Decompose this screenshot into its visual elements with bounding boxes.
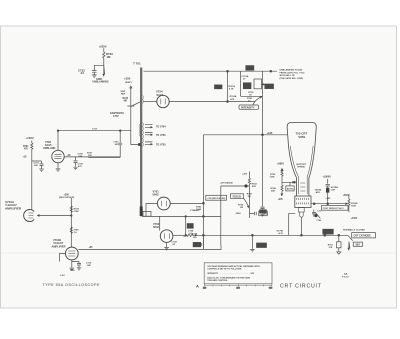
svg-text:CRT CIRCUIT: CRT CIRCUIT (280, 283, 322, 289)
svg-text:FROM CATH. FOL. V713: FROM CATH. FOL. V713 (280, 71, 306, 74)
svg-text:AA.: AA. (344, 273, 348, 276)
svg-text:+350: +350 (64, 193, 70, 196)
svg-text:200: 200 (237, 287, 240, 289)
svg-text:CAP: CAP (331, 188, 336, 191)
svg-text:(DECOUPLED): (DECOUPLED) (59, 197, 74, 199)
svg-text:UNBLANK.: UNBLANK. (43, 147, 56, 150)
svg-text:INTENSITY: INTENSITY (241, 105, 255, 109)
svg-text:+350: +350 (242, 174, 248, 176)
svg-text:270K: 270K (74, 211, 80, 213)
svg-text:UNBLANKING: UNBLANKING (93, 81, 109, 84)
svg-text:UNBLANKING PULSE: UNBLANKING PULSE (280, 69, 303, 72)
svg-text:NORMALLY CLOSED: NORMALLY CLOSED (343, 229, 365, 232)
svg-text:300: 300 (269, 287, 272, 289)
svg-text:CRT CATHODE: CRT CATHODE (354, 235, 372, 238)
svg-text:R748: R748 (271, 187, 277, 190)
svg-text:4M: 4M (124, 100, 127, 103)
svg-text:+350V: +350V (343, 195, 350, 197)
svg-text:TYPE 55A OSCILLOSCOPE: TYPE 55A OSCILLOSCOPE (43, 283, 100, 287)
svg-text:ASTIG.: ASTIG. (287, 188, 295, 191)
svg-text:CONTROLS SET AT TO FOLLOWS:: CONTROLS SET AT TO FOLLOWS: (207, 268, 242, 271)
svg-text:+350: +350 (124, 76, 131, 80)
svg-text:5642: 5642 (153, 193, 159, 197)
svg-text:C717: C717 (92, 129, 98, 131)
svg-text:AMPLIFIER: AMPLIFIER (5, 207, 22, 211)
svg-text:56K: 56K (271, 191, 275, 193)
svg-text:4.7K: 4.7K (229, 87, 234, 90)
svg-text:A: A (196, 284, 199, 289)
svg-text:2M: 2M (240, 207, 243, 209)
svg-text:R721A: R721A (228, 85, 235, 88)
svg-text:+150V: +150V (351, 218, 358, 220)
svg-text:R766A: R766A (351, 202, 358, 205)
svg-text:R742: R742 (196, 205, 202, 208)
svg-text:-1.5V: -1.5V (60, 275, 66, 277)
svg-text:AMPLIFIER: AMPLIFIER (52, 244, 66, 248)
svg-text:R724A: R724A (230, 95, 237, 98)
svg-text:TO V705: TO V705 (156, 134, 166, 137)
svg-text:ADJ.: ADJ. (316, 191, 321, 194)
svg-text:SB?: SB? (356, 245, 361, 247)
svg-text:175V: 175V (113, 115, 119, 118)
svg-text:(SWP): (SWP) (125, 82, 132, 84)
svg-text:TRIGGER CONTROL: TRIGGER CONTROL (207, 280, 228, 282)
svg-text:6800: 6800 (195, 210, 201, 212)
svg-text:110K: 110K (270, 176, 276, 178)
svg-text:ALSO ADJ. OF: ALSO ADJ. OF (280, 74, 296, 77)
svg-text:+225V: +225V (99, 45, 107, 49)
svg-text:2M: 2M (248, 196, 251, 198)
svg-text:(THE GATE SEL. LINE): (THE GATE SEL. LINE) (280, 77, 304, 80)
svg-text:100K: 100K (351, 205, 356, 207)
svg-text:47K: 47K (252, 185, 256, 188)
svg-text:1M: 1M (107, 55, 112, 59)
svg-text:+165: +165 (325, 198, 331, 200)
svg-text:TO V703: TO V703 (156, 144, 166, 147)
svg-text:100: 100 (203, 287, 206, 289)
svg-text:TO V704: TO V704 (156, 126, 166, 129)
svg-text:POST DEFLECT ACC.: POST DEFLECT ACC. (323, 207, 345, 210)
svg-text:SPRING: SPRING (297, 167, 305, 169)
svg-text:27K: 27K (329, 247, 333, 249)
svg-text:+880V: +880V (277, 162, 284, 165)
svg-text:V859: V859 (298, 135, 305, 139)
svg-text:47K: 47K (230, 98, 234, 101)
svg-text:5642: 5642 (153, 225, 159, 229)
svg-text:+350 (DECOUPLED): +350 (DECOUPLED) (207, 198, 225, 200)
svg-text:R738: R738 (192, 234, 198, 236)
svg-text:R745: R745 (247, 193, 253, 196)
svg-text:VOLTAGE READINGS ARE ACTUAL OB: VOLTAGE READINGS ARE ACTUAL OBTAINED WIT… (207, 265, 260, 268)
svg-text:.01: .01 (80, 71, 84, 75)
svg-text:T 701: T 701 (133, 62, 141, 66)
svg-text:+195: +195 (267, 131, 273, 135)
svg-text:+405: +405 (278, 198, 284, 201)
svg-text:REF: REF (121, 94, 126, 96)
svg-text:+1900V: +1900V (323, 176, 332, 179)
svg-text:6AF4: 6AF4 (157, 93, 164, 97)
svg-text:+875 RANGE: +875 RANGE (220, 181, 233, 184)
svg-text:-1850: -1850 (235, 213, 241, 215)
svg-text:FOCUS: FOCUS (233, 195, 242, 198)
svg-text:+6.3V: +6.3V (278, 233, 284, 235)
svg-text:+100V: +100V (26, 136, 34, 140)
svg-text:1%: 1% (74, 232, 77, 234)
svg-text:DIAL ILLUS. CONCENTRATE ON THI: DIAL ILLUS. CONCENTRATE ON THIS SIDE (207, 277, 250, 280)
svg-text:F-8-18: F-8-18 (342, 277, 349, 279)
svg-text:INTENSITY . . . . . . . . . .: INTENSITY . . . . . . . . . . . . . . . … (207, 273, 255, 275)
